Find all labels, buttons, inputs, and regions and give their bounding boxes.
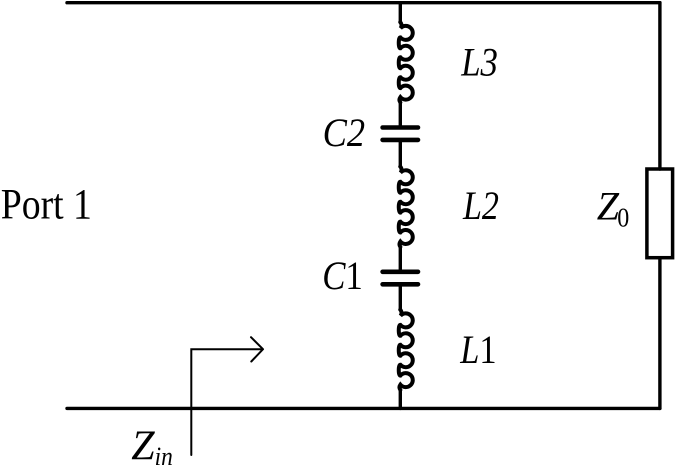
wire right vertical upper segment bbox=[658, 3, 661, 169]
svg-text:C2: C2 bbox=[323, 112, 365, 156]
arrowhead bbox=[251, 337, 263, 361]
wire C2 to L2 bbox=[399, 140, 402, 167]
resistor Z0 body bbox=[647, 169, 673, 258]
inductor L1 bbox=[399, 310, 413, 390]
arrow Zin direction bbox=[191, 337, 263, 455]
wire right vertical lower segment bbox=[658, 258, 661, 409]
svg-text:L2: L2 bbox=[462, 184, 499, 228]
capacitor C2 bottom plate bbox=[383, 138, 418, 143]
wire arrow shaft bbox=[191, 349, 262, 455]
svg-text:Z: Z bbox=[131, 424, 155, 468]
svg-text:0: 0 bbox=[617, 202, 629, 233]
capacitor C1 bottom plate bbox=[383, 282, 418, 287]
capacitor C1 top plate bbox=[383, 269, 418, 274]
wire C1 to L1 bbox=[399, 284, 402, 310]
wire L3 to C2 bbox=[399, 102, 402, 127]
wire L2 to C1 bbox=[399, 247, 402, 272]
svg-text:Port 1: Port 1 bbox=[1, 180, 92, 228]
svg-text:L1: L1 bbox=[459, 329, 496, 373]
wire top horizontal bbox=[67, 1, 660, 4]
capacitor C2 top plate bbox=[383, 125, 418, 130]
wire middle branch top stub bbox=[399, 3, 402, 23]
wire bottom horizontal bbox=[67, 407, 660, 410]
inductor L2 bbox=[399, 167, 413, 247]
svg-text:L3: L3 bbox=[460, 41, 498, 85]
svg-text:C1: C1 bbox=[322, 255, 363, 299]
wire L1 to bottom bbox=[399, 390, 402, 409]
svg-text:in: in bbox=[155, 443, 173, 468]
inductor L3 bbox=[399, 22, 413, 102]
